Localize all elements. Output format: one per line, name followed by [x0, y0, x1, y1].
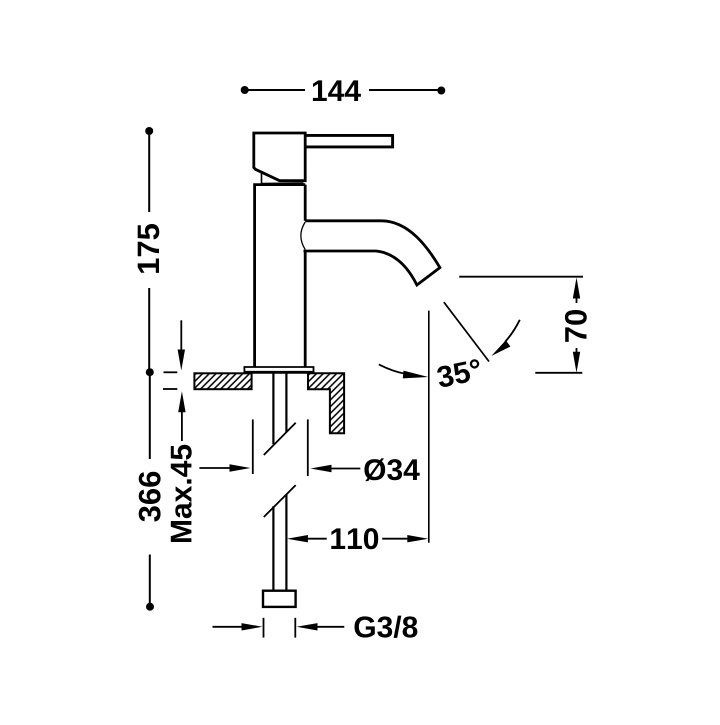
- 35 degree arc arrow right: [491, 320, 520, 356]
- dimension 70 right: [459, 277, 583, 373]
- faucet lever bar: [305, 135, 392, 147]
- dimension 144 top: [241, 86, 446, 95]
- base flange: [244, 367, 313, 373]
- dimension 175 left: [145, 127, 154, 376]
- pipe break line 1: [264, 423, 296, 455]
- label 110: [331, 528, 378, 549]
- 35 degree arc arrow left: [379, 364, 428, 378]
- dimension 366 left: [146, 372, 154, 611]
- label 175: [138, 224, 160, 273]
- countertop right L-section: [308, 373, 344, 433]
- pipe break line 2: [264, 485, 296, 517]
- 35 degree direction line: [444, 302, 489, 361]
- dimension 110: [287, 535, 428, 542]
- countertop left slab: [194, 373, 251, 389]
- dimension diameter 34: [199, 419, 360, 476]
- bottom connector G3/8: [263, 591, 296, 607]
- label 70: [565, 310, 587, 342]
- faucet body column: [255, 185, 306, 367]
- label 366: [139, 472, 161, 522]
- label 144: [313, 80, 361, 101]
- label diameter 34: [364, 458, 419, 481]
- supply pipe: [273, 374, 286, 591]
- spout: [304, 221, 440, 285]
- label Max.45: [171, 445, 192, 542]
- label 35deg: [436, 358, 483, 388]
- faucet handle housing: [254, 133, 305, 181]
- outlet centerline: [428, 311, 430, 543]
- cartridge dome edge: [262, 173, 304, 184]
- spout back cap arc: [301, 222, 305, 250]
- dimension Max.45: [163, 320, 186, 441]
- label G3/8: [355, 616, 418, 638]
- dimension G3/8: [213, 618, 345, 638]
